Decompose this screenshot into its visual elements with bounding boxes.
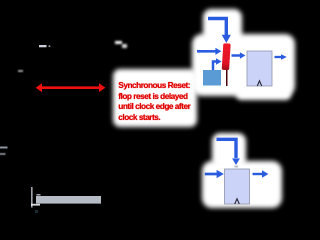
arrowhead: clock into flip-flop U2 (232, 158, 240, 165)
clock pin stub on U2 (234, 166, 238, 168)
wire: U2 output Q (253, 170, 269, 177)
wire: upper clock net (208, 19, 226, 36)
white cloud finger around upper clock wire (203, 9, 242, 43)
flip-flop U2 (225, 169, 250, 204)
waveform unknown-state gray bar (36, 194, 101, 204)
wire: U1 output Q (275, 54, 287, 60)
dark stem below reset bar (226, 70, 228, 86)
white background cloud behind lower flip-flop (202, 161, 282, 208)
node label dashes at left edge (reset waveform label halo) (0, 147, 8, 156)
white tick under waveform bar (31, 204, 40, 206)
white speck left of caption (18, 70, 23, 72)
wire: logic block to sync bar (213, 58, 222, 70)
arrowhead: clock into reset-sync bar (222, 35, 231, 43)
red timing double arrow (36, 83, 106, 92)
red caption text (118, 80, 190, 122)
wire: async reset input arrow into sync bar (197, 48, 221, 55)
white cloud finger around lower clock wire (212, 133, 246, 168)
flip-flop U1 (247, 51, 272, 86)
reset synchronizer bar (red block) (222, 43, 231, 70)
wire: sync bar to flip-flop U1 (232, 52, 246, 59)
white background cloud behind upper sync-reset circuit (192, 34, 295, 96)
wire: lower clock net (217, 139, 237, 158)
wire: async reset into U2 (205, 170, 224, 178)
white cloud tail under upper flip-flop (236, 88, 291, 100)
dark tick below axis (35, 210, 38, 213)
white background cloud behind red caption text (113, 69, 197, 127)
waveform axis line (31, 187, 32, 208)
clk label dash (top-left waveform label halo) (39, 45, 50, 47)
synchronizer logic block (steel blue square) (203, 70, 221, 86)
white speck near caption top (115, 41, 122, 45)
